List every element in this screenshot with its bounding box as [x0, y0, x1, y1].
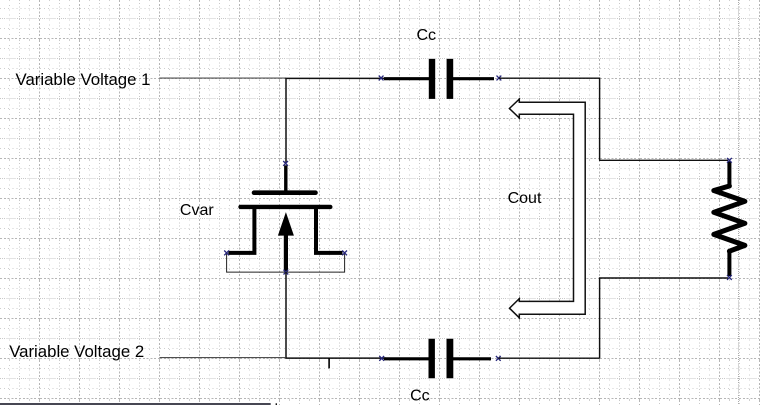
varactor Cvar (MOS capacitor symbol) [227, 165, 345, 272]
capacitor Cc1 (top coupling cap) [384, 59, 494, 99]
svg-text:Cout: Cout [508, 190, 542, 207]
svg-text:Variable Voltage 2: Variable Voltage 2 [9, 342, 144, 361]
page break line [738, 0, 740, 405]
connection point x at resistor bottom [727, 275, 732, 280]
svg-text:Cc: Cc [410, 387, 430, 404]
wire from node A to capacitor Cc1 [285, 77, 386, 79]
wire from Cc1 right pin to top-right corner and down [499, 78, 600, 160]
wire from corner to resistor top [599, 159, 728, 161]
left leg [252, 207, 256, 251]
connection point x at Cvar right foot [342, 251, 347, 256]
tuning arrow shaft [284, 234, 288, 272]
wire from node A down to Cvar top [285, 78, 287, 163]
top plate [254, 190, 316, 195]
left foot [228, 251, 256, 255]
svg-text:Cvar: Cvar [180, 202, 214, 219]
Cout feedback arrow (outlined U-shaped double arrow) [509, 99, 585, 318]
connection point x at resistor top [727, 158, 732, 163]
connection point x at Cc2 right pin [496, 356, 501, 361]
wire from Cvar bottom down to Variable Voltage 2 line [285, 272, 287, 358]
connection point x at Cvar left foot [224, 251, 229, 256]
right leg [314, 207, 318, 251]
wire from node B to capacitor Cc2 [285, 357, 386, 359]
wire from Cc2 right pin to corner [498, 357, 599, 359]
connection point x at Cvar bottom [284, 270, 289, 275]
top stem [284, 165, 287, 193]
capacitor Cc2 (bottom coupling cap) [384, 339, 491, 378]
stray connector stub below wire [328, 358, 330, 368]
right foot [314, 251, 343, 255]
connection point x at Cc1 right pin [497, 76, 502, 81]
resistor (right load) [714, 162, 745, 277]
svg-text:Cc: Cc [417, 27, 437, 44]
window edge line at bottom left [0, 403, 271, 405]
bulk box (thin rectangle) [227, 254, 345, 273]
wire from Variable Voltage 2 label to node B [160, 357, 287, 359]
wire from resistor bottom to corner and down to Cc2 [600, 278, 728, 358]
connection point x at Cc1 left pin [379, 76, 384, 81]
gate plate [241, 205, 331, 209]
tuning arrow head [278, 212, 294, 236]
connection point x at Cc2 left pin [379, 356, 384, 361]
window edge tick [275, 403, 277, 405]
wire from Variable Voltage 1 label to node A [159, 77, 286, 79]
svg-text:Variable Voltage 1: Variable Voltage 1 [16, 70, 151, 89]
connection point x at Cvar top [283, 161, 288, 166]
